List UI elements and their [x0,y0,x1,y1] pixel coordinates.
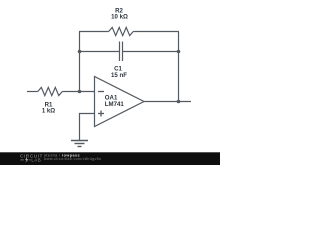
wire top left to R2 [79,31,109,33]
svg-text:1 kΩ: 1 kΩ [42,107,55,114]
op-amp plus input symbol [98,111,104,117]
resistor R1 [38,87,63,95]
op-amp OA1 triangle [95,77,145,127]
capacitor C1 [120,42,123,62]
wire capacitor branch left [80,51,120,53]
wire R1 to op-amp minus input [62,91,94,93]
footer logo bolt dash right [29,159,30,161]
resistor R2 [109,27,134,35]
wire R2 to right vertical [133,31,179,33]
svg-text:LM741: LM741 [105,101,125,108]
footer logo bolt dash left [21,159,24,161]
node junction right capacitor branch [177,50,181,54]
wire output [144,101,191,103]
node junction output [177,100,181,104]
ground [71,141,88,147]
node junction minus input [78,90,82,94]
svg-text:www.circuitlab.com/c8h4gv5s: www.circuitlab.com/c8h4gv5s [44,157,101,161]
wire right vertical [178,32,180,102]
node junction left capacitor branch [78,50,82,54]
wire capacitor branch right [123,51,179,53]
footer logo lightning bolt [25,157,29,163]
wire input to R1 [27,91,38,93]
op-amp minus input symbol [98,91,104,93]
wire feedback left vertical [79,32,81,92]
svg-text:10 kΩ: 10 kΩ [111,14,128,21]
wire plus input to ground corner [80,114,95,141]
svg-text:LAB: LAB [31,158,41,163]
svg-text:15 nF: 15 nF [111,72,127,79]
footer banner background [0,152,220,165]
